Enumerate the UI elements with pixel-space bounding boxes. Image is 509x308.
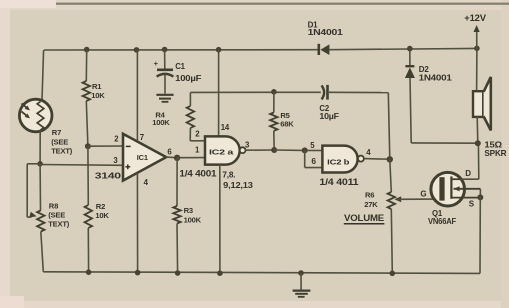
label pin 3 (113, 156, 118, 165)
label R7 text (51, 146, 73, 155)
svg-text:VOLUME: VOLUME (344, 212, 384, 223)
label D2 (419, 65, 430, 74)
label R8 (49, 201, 58, 210)
label R1 (92, 82, 102, 91)
wire R6 bottom (391, 209, 392, 273)
node R7/R8 junction (37, 161, 43, 167)
speaker driver box (473, 91, 483, 117)
svg-text:R3: R3 (184, 206, 193, 215)
svg-text:1/4 4001: 1/4 4001 (179, 169, 216, 179)
wire speaker bottom (476, 117, 479, 143)
ground C1 bar3 (162, 101, 169, 103)
Q1 body stub (451, 197, 480, 199)
op-amp IC1 body (123, 134, 166, 181)
node +12V / speaker on rail (474, 46, 480, 52)
wire R8 wiper branch (27, 164, 40, 217)
wire R6 top (390, 159, 392, 192)
node speaker/D2/drain (475, 140, 481, 146)
ground symbol stem (300, 273, 302, 290)
gate IC2b bubble (358, 156, 364, 162)
ground bar3 (298, 296, 305, 298)
resistor R5 (270, 113, 277, 131)
wire R2 bottom (87, 228, 89, 272)
label D1 (308, 21, 319, 30)
svg-text:1N4001: 1N4001 (419, 73, 453, 82)
label D1 value 1N4001 (308, 28, 344, 37)
speaker cone (484, 77, 491, 130)
power +12V arrow (474, 25, 480, 48)
label R8 see (48, 210, 65, 219)
VOLUME underline (344, 223, 385, 225)
svg-text:S: S (469, 199, 475, 208)
node IC1 output junction (174, 155, 180, 161)
label C1 value 100uF (175, 74, 202, 83)
node C1 top on rail (162, 47, 168, 53)
svg-text:(SEE: (SEE (51, 138, 68, 147)
node R1 top on rail (84, 47, 90, 53)
wire IC2 pin14 (218, 50, 220, 137)
wire bottom ground rail (43, 272, 480, 274)
diode D1 body (320, 44, 329, 55)
svg-text:7,8.: 7,8. (222, 170, 235, 179)
svg-text:100K: 100K (152, 118, 170, 127)
R8 wiper arrow (29, 212, 36, 218)
label pin 4 out (366, 148, 371, 157)
node D2 top on rail (407, 46, 413, 52)
node R5 bottom (271, 147, 277, 153)
label D (465, 169, 471, 178)
wire top supply rail right of D1 (329, 48, 477, 49)
wire IC2a pin7 down (219, 165, 221, 273)
label C2 (319, 104, 329, 113)
svg-text:6: 6 (311, 156, 316, 166)
svg-text:TEXT): TEXT) (48, 220, 70, 229)
svg-text:C1: C1 (175, 62, 185, 71)
node R1/R2/pin2 junction (85, 143, 91, 149)
svg-text:1/4 4011: 1/4 4011 (319, 177, 358, 187)
wire R3 top (176, 158, 178, 206)
label R3 (184, 206, 193, 215)
capacitor C1 curved plate (157, 74, 174, 77)
label pin 5 (310, 141, 315, 150)
node R2 bottom (86, 269, 92, 275)
svg-text:3140: 3140 (95, 171, 122, 181)
label pin 14 (221, 123, 230, 132)
wire D2 top (409, 49, 411, 66)
capacitor C2 straight plate (326, 85, 329, 100)
ground bar1 (293, 290, 311, 292)
wire IC2a output (246, 149, 275, 151)
wire R5 top (273, 92, 275, 113)
label R8 text (48, 220, 70, 229)
wire R1 top (85, 50, 87, 81)
svg-text:IC2 b: IC2 b (327, 158, 350, 167)
Q1 drain stub (451, 178, 460, 180)
capacitor C1 top plate (157, 69, 173, 72)
svg-text:100µF: 100µF (175, 74, 202, 83)
top rule line (56, 3, 509, 5)
wire Q1 source down (479, 189, 481, 198)
label R4 (155, 110, 165, 119)
diode D1 cathode bar (318, 44, 321, 55)
photoresistor R7 element (37, 102, 44, 131)
wire R4 top corner (189, 92, 191, 106)
svg-text:1N4001: 1N4001 (308, 28, 344, 37)
label pin 6 (311, 156, 316, 166)
potentiometer R8 (37, 210, 44, 231)
photoresistor R7 circle (19, 99, 52, 132)
label Q1 (432, 209, 443, 218)
svg-text:7: 7 (140, 133, 144, 142)
label pins 7 8 (222, 170, 235, 179)
Q1 source arrow stub (454, 186, 481, 191)
label IC1 (137, 153, 148, 162)
op-amp plus sign (125, 164, 130, 169)
label C2 value 10uF (319, 112, 339, 121)
svg-text:10K: 10K (95, 211, 109, 220)
resistor R2 (85, 205, 92, 228)
wire R8 bottom (41, 232, 44, 272)
resistor R4 (187, 106, 194, 128)
wire IC1 out to IC2a pin1 (177, 157, 205, 159)
label 1/4 4001 (179, 169, 216, 179)
gate IC2a bubble (240, 147, 246, 153)
label R6 (365, 191, 374, 200)
svg-text:14: 14 (221, 123, 230, 132)
ground bar2 (295, 293, 308, 295)
label 15 ohm (484, 139, 502, 149)
gate IC2b body (322, 146, 357, 173)
wire pin6 loop (305, 150, 323, 167)
label pin 6 (167, 147, 172, 156)
wire speaker top (476, 48, 478, 91)
label R3 value 100K (184, 215, 202, 224)
svg-text:G: G (420, 190, 426, 199)
node pin4/C2/R6 junction (387, 156, 393, 162)
svg-text:R7: R7 (52, 128, 61, 137)
gate IC2a body (205, 136, 240, 164)
svg-text:R2: R2 (96, 202, 105, 211)
label R5 (280, 111, 290, 120)
svg-text:SPKR: SPKR (484, 148, 506, 158)
wire R6 wiper to gate (396, 198, 440, 200)
label R4 value 100K (152, 118, 170, 127)
label +12V (464, 13, 487, 23)
wire R2 top (87, 146, 89, 205)
label pin 3 out (245, 140, 250, 149)
label pins 9 12 13 (223, 181, 253, 190)
svg-text:68K: 68K (280, 119, 294, 128)
label Q1 value VN66AF (428, 217, 456, 226)
wire D2 bottom (410, 78, 478, 143)
wire IC1 pin4 down (136, 173, 138, 273)
node Q1 source (477, 194, 483, 200)
svg-text:IC1: IC1 (137, 153, 148, 162)
op-amp minus sign (126, 145, 131, 147)
label IC2 b (327, 158, 350, 167)
label pin 4 (144, 178, 149, 187)
node IC1 pin4 bottom (135, 270, 141, 276)
node R5 top (271, 89, 277, 95)
label pin 1 (195, 146, 200, 155)
wire IC1 output (166, 156, 177, 159)
label S (469, 199, 475, 208)
wire C1 top (164, 50, 166, 69)
svg-text:R1: R1 (92, 82, 102, 91)
wire to IC2b pin5 (274, 149, 322, 152)
resistor R1 (83, 81, 90, 101)
potentiometer R6 (388, 192, 395, 209)
svg-text:D: D (465, 169, 471, 178)
Q1 gate bar (439, 177, 444, 200)
label C1 (175, 62, 185, 71)
R6 wiper arrow (394, 196, 401, 202)
label D2 value 1N4001 (419, 73, 453, 82)
capacitor C2 curved plate (322, 85, 325, 99)
capacitor C1 plus (154, 59, 159, 68)
Q1 channel bar (450, 176, 452, 198)
label IC2 a (209, 147, 235, 156)
label R2 value 10K (95, 211, 109, 220)
node IC1 pin7 on rail (134, 47, 140, 53)
svg-text:R8: R8 (49, 201, 58, 210)
svg-text:IC2 a: IC2 a (209, 147, 235, 156)
wire R4 bottom to pin2 corner (190, 128, 205, 141)
svg-text:10µF: 10µF (319, 112, 339, 121)
svg-text:100K: 100K (184, 215, 202, 224)
label R1 value 10K (91, 91, 105, 100)
wire IC1 pin7 up (136, 50, 138, 141)
photoresistor R7 light arrow 2 (22, 112, 31, 119)
label R7 see (51, 138, 68, 147)
wire junction down to R8 (39, 164, 41, 211)
wire R1 bottom (86, 101, 88, 146)
label R2 (96, 202, 105, 211)
wire C2 right (329, 91, 389, 93)
svg-text:TEXT): TEXT) (51, 146, 73, 155)
transistor Q1 circle (431, 172, 465, 206)
node IC2 pin7 bottom (217, 270, 223, 276)
label pin 7 (140, 133, 144, 142)
wire IC2b output (364, 158, 390, 161)
wire to op-amp pin2 (88, 145, 123, 147)
node ground junction (298, 270, 304, 276)
label R6 value 27K (364, 200, 378, 209)
wire R7 bottom (39, 131, 41, 164)
wire top supply rail left of D1 (44, 49, 318, 51)
label R7 (52, 128, 61, 137)
svg-text:10K: 10K (91, 91, 105, 100)
svg-text:+12V: +12V (464, 13, 487, 23)
wire R3 bottom (176, 224, 179, 274)
label R5 value 68K (280, 119, 294, 128)
node R3 bottom (175, 270, 181, 276)
wire C2 down to pin4 node (388, 93, 390, 160)
label SPKR (484, 148, 506, 158)
node IC2b pin5/6 junction (302, 147, 308, 153)
wire Q1 drain up (461, 143, 479, 179)
label VOLUME (344, 212, 384, 223)
wire top-left corner down to R7 (42, 50, 44, 100)
svg-text:27K: 27K (364, 200, 378, 209)
photoresistor R7 light arrow 1 (22, 104, 31, 111)
node R6 bottom (390, 271, 396, 277)
wire C1 bottom (164, 75, 166, 94)
ground C1 bar2 (159, 98, 171, 100)
svg-text:R6: R6 (365, 191, 374, 200)
svg-text:9,12,13: 9,12,13 (223, 181, 253, 190)
label G (420, 190, 426, 199)
ground C1 bar1 (156, 94, 173, 96)
svg-text:VN66AF: VN66AF (428, 217, 456, 226)
label IC1 value 3140 (95, 171, 122, 181)
wire junction to op-amp pin3 (40, 164, 123, 167)
label 1/4 4011 (319, 177, 358, 187)
diode D2 cathode bar (405, 65, 414, 67)
node IC2 pin14 on rail (216, 47, 222, 53)
wire source to ground rail (479, 197, 481, 273)
wire feedback rail (190, 91, 320, 93)
resistor R3 (173, 206, 180, 224)
svg-text:(SEE: (SEE (48, 210, 65, 219)
diode D2 body (405, 67, 415, 78)
label IC2a pin 2 (195, 130, 200, 139)
label pin 2 (114, 134, 119, 143)
wire R5 bottom (273, 131, 275, 150)
